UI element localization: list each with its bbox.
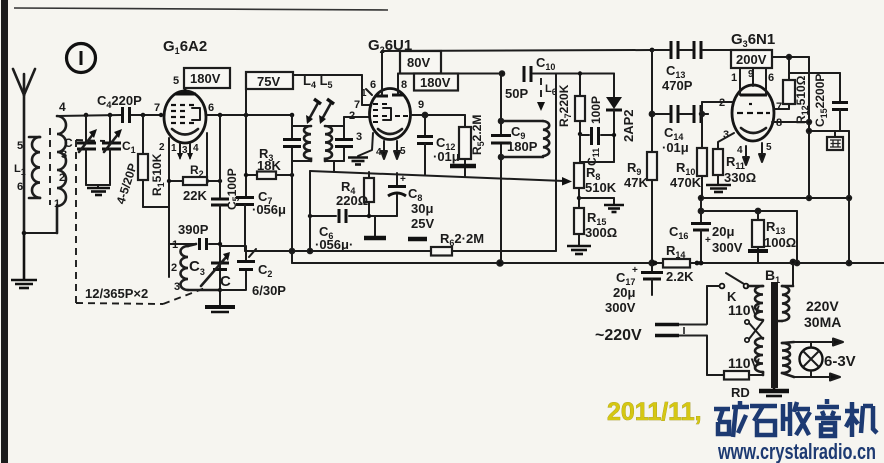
labels C8 30u 25V	[408, 186, 434, 231]
primary crossover taps	[745, 320, 763, 342]
svg-text:25V: 25V	[411, 216, 434, 231]
wire switch to input	[707, 286, 720, 324]
svg-text:5: 5	[17, 140, 23, 152]
svg-text:C: C	[64, 136, 73, 150]
resistor R15 300ohm	[574, 208, 584, 245]
variable capacitor C (osc gang)	[201, 252, 230, 286]
svg-text:www.crystalradio.cn: www.crystalradio.cn	[717, 439, 876, 463]
svg-text:110V: 110V	[728, 355, 761, 371]
svg-text:30MA: 30MA	[804, 314, 841, 330]
svg-text:2: 2	[349, 110, 355, 122]
wire secondary to rail	[791, 260, 796, 286]
tube G2 anode bars, pin6 and pin8 stems	[376, 95, 404, 96]
capacitor IF1 primary	[283, 140, 301, 147]
voltage box 80V	[400, 51, 441, 74]
svg-text:R52.2M: R52.2M	[470, 115, 486, 155]
resistor R13 100ohm	[748, 211, 768, 263]
fuse RD	[724, 371, 763, 380]
labels R8 510K	[585, 165, 617, 195]
wire diode to R8 top	[580, 161, 614, 163]
labels C17 20u 300V	[605, 270, 636, 315]
labels C6 .056u	[315, 224, 353, 252]
svg-text:3: 3	[61, 149, 67, 161]
ground transformer core	[759, 388, 789, 396]
coil L5 (IF1 secondary)	[325, 126, 332, 161]
svg-text:180V: 180V	[190, 71, 221, 86]
resistor R7 220K	[575, 71, 585, 163]
voltage box 180V at G2	[414, 74, 458, 91]
wire main bottom rail	[292, 251, 884, 263]
resistor R10 470K	[697, 148, 707, 198]
watermark CJK 机	[845, 402, 877, 437]
resistor R5 2.2M	[450, 115, 476, 176]
capacitor C10 50P	[524, 66, 614, 82]
svg-text:2011/11,: 2011/11,	[607, 398, 702, 426]
tube G1 cathode	[172, 129, 198, 135]
wire C16/R13 sub-frame	[699, 209, 800, 266]
labels R3 18K	[257, 146, 281, 173]
capacitor C7 0.056u	[236, 198, 254, 252]
svg-text:+: +	[632, 265, 638, 276]
tube G1 pin labels	[154, 102, 214, 156]
labels 110V 110V	[728, 302, 761, 371]
svg-text:G36N1: G36N1	[731, 31, 775, 49]
svg-text:4: 4	[59, 100, 66, 114]
svg-text:300V: 300V	[712, 240, 743, 255]
capacitor C12 .01u	[417, 115, 433, 175]
wire G1 grid pin2 down	[168, 138, 170, 277]
ground R11	[706, 185, 731, 192]
capacitor C8 30u electrolytic	[388, 173, 406, 216]
svg-text:G16A2: G16A2	[163, 38, 207, 56]
wire vertical x310	[309, 171, 311, 251]
svg-text:510K: 510K	[585, 180, 617, 195]
tube G2 pin1 stub	[366, 89, 372, 95]
svg-text:470K: 470K	[670, 175, 702, 190]
ground R15	[567, 246, 591, 254]
transformer B1 secondary 220V winding	[778, 286, 793, 321]
transformer B1 primary winding upper 110V	[748, 286, 763, 320]
coil L1 secondary winding (taps 1-2-3-4)	[57, 116, 66, 233]
svg-text:R13: R13	[766, 219, 785, 236]
resistor R3 18K	[244, 172, 294, 180]
svg-text:C1: C1	[122, 139, 136, 155]
svg-text:2AP2: 2AP2	[621, 109, 636, 142]
svg-text:L6: L6	[545, 83, 557, 97]
resistor R14 2.2K (in rail)	[653, 259, 700, 268]
svg-text:RD: RD	[731, 385, 750, 400]
tube G1 grids (dashed)	[171, 105, 194, 123]
svg-text:C3: C3	[189, 258, 205, 277]
tube G2 heater arrows pins 4,5	[381, 141, 400, 159]
capacitor C9 180P	[491, 136, 511, 144]
svg-text:18K: 18K	[257, 158, 281, 173]
trimmer capacitor C2 6/30P	[220, 246, 256, 290]
ground cathode network	[364, 216, 386, 238]
svg-text:300Ω: 300Ω	[585, 225, 617, 240]
transformer B1 primary winding lower 110V	[755, 338, 763, 375]
tube G1 6A2 envelope	[164, 91, 206, 143]
pilot lamp 6.3V	[800, 342, 823, 377]
svg-text:+: +	[400, 174, 406, 185]
svg-text:2: 2	[159, 142, 165, 153]
svg-text:300V: 300V	[605, 300, 636, 315]
svg-text:·01μ: ·01μ	[662, 140, 689, 155]
resistor R9 47K	[647, 152, 657, 180]
svg-text:C16: C16	[669, 224, 688, 241]
labels R11 330ohm	[724, 154, 756, 185]
svg-text:180V: 180V	[420, 75, 451, 90]
oscillator coil C3	[181, 244, 221, 290]
svg-text:6: 6	[370, 79, 376, 91]
voltage box 200V	[731, 50, 772, 68]
wire right frame rungs	[699, 129, 852, 266]
svg-text:3: 3	[182, 145, 188, 156]
svg-text:1: 1	[731, 72, 737, 84]
tube G3 grid dashes	[737, 104, 770, 113]
svg-text:C4220P: C4220P	[97, 93, 142, 110]
labels R9 47K	[624, 160, 648, 190]
resistor R11 330ohm	[713, 149, 723, 184]
wire screen line x246	[245, 89, 247, 197]
wire antenna bottom to ground	[24, 232, 57, 234]
svg-text:5: 5	[400, 146, 406, 157]
svg-text:4: 4	[376, 147, 382, 158]
svg-text:100P: 100P	[589, 96, 603, 124]
svg-text:50P: 50P	[505, 86, 528, 101]
svg-text:R7220K: R7220K	[557, 84, 573, 127]
node junctions on top wire	[84, 113, 295, 118]
svg-text:7: 7	[154, 102, 160, 114]
svg-text:6: 6	[208, 102, 214, 114]
tube G1 anode bar and pin 5 stem	[175, 88, 196, 94]
capacitor C17 20u 300V	[632, 263, 663, 295]
svg-text:470P: 470P	[662, 78, 693, 93]
labels osc coil taps 1,2,3 and C3	[171, 239, 205, 293]
headphone output box	[827, 131, 843, 150]
voltage box 75V	[246, 72, 293, 89]
svg-text:·056μ: ·056μ	[252, 202, 286, 217]
heater supply wires with arrows	[794, 339, 843, 381]
svg-text:390P: 390P	[178, 222, 209, 237]
wire G3 pin2 to R10	[700, 102, 732, 148]
svg-text:~220V: ~220V	[595, 327, 642, 344]
capacitor C4 220P	[123, 107, 130, 123]
svg-text:180P: 180P	[507, 139, 538, 154]
resistor R4 220ohm	[364, 172, 374, 216]
capacitor C6 .056u	[308, 209, 397, 223]
svg-text:5: 5	[173, 75, 179, 87]
labels C12 .01u	[433, 135, 460, 164]
svg-text:5: 5	[766, 142, 772, 153]
ground oscillator	[205, 307, 235, 312]
wire cathode/AGC line with wiper arrow to R8	[310, 171, 572, 186]
ground antenna	[11, 233, 37, 288]
labels C9 180P	[507, 124, 538, 154]
tube G2 grids	[373, 104, 408, 122]
watermark CJK 石	[750, 406, 777, 435]
coil L4 (IF1 primary)	[304, 126, 311, 161]
capacitor C15 2200P	[789, 73, 848, 131]
wire G3 pin3 to R11	[718, 133, 734, 149]
svg-text:47K: 47K	[624, 175, 648, 190]
svg-text:3: 3	[356, 131, 362, 143]
labels R2 22K	[183, 163, 207, 203]
svg-text:R1510K: R1510K	[150, 153, 166, 196]
svg-text:4-5/20P: 4-5/20P	[114, 162, 140, 206]
diode 2AP2	[606, 74, 622, 163]
capacitor 390P (osc grid)	[169, 238, 220, 250]
svg-text:1: 1	[171, 143, 177, 154]
svg-text:1: 1	[172, 239, 178, 251]
svg-text:12/365P×2: 12/365P×2	[85, 286, 148, 301]
labels C2 6/30P	[252, 262, 286, 298]
svg-text:8: 8	[401, 79, 407, 91]
resistor R1 510K	[138, 115, 169, 207]
wire input low side to fuse	[707, 336, 724, 376]
svg-text:R2: R2	[190, 163, 204, 179]
dashed gang-capacitor box	[76, 140, 205, 304]
resistor R2 22K	[167, 177, 222, 185]
labels C10 50P	[505, 55, 555, 101]
coil L1 primary winding (pins 5-6)	[29, 137, 40, 198]
labels L1 winding numbers	[14, 140, 67, 210]
resistor R8 510K (volume pot)	[574, 163, 584, 208]
labels R14 2.2K	[666, 243, 694, 284]
tube G3 6N1 envelope	[732, 85, 774, 141]
labels C14 .01u	[662, 125, 689, 155]
svg-text:6-3V: 6-3V	[824, 353, 856, 370]
transformer B1 heater winding 6.3V	[782, 342, 794, 377]
svg-text:C2: C2	[258, 262, 272, 279]
wire B+ dropper x652	[649, 50, 654, 266]
labels trimmers C and C1	[64, 136, 136, 155]
svg-text:2: 2	[59, 172, 65, 184]
svg-text:4: 4	[737, 145, 743, 156]
tube G2 triode anode bracket	[383, 108, 391, 120]
svg-text:30μ: 30μ	[411, 201, 433, 216]
svg-text:R62·2M: R62·2M	[440, 231, 484, 248]
svg-text:22K: 22K	[183, 188, 207, 203]
svg-text:1: 1	[361, 88, 367, 99]
svg-text:C11: C11	[585, 148, 601, 166]
trimmer capacitor C1	[102, 115, 122, 185]
labels R4 220ohm	[336, 179, 368, 208]
capacitor C16 20u electrolytic	[691, 211, 711, 265]
capacitor C5 100P	[211, 115, 229, 243]
svg-text:100Ω: 100Ω	[764, 235, 796, 250]
svg-text:C: C	[220, 273, 231, 290]
tube G3 pin labels	[719, 69, 782, 156]
svg-text:2: 2	[171, 262, 177, 274]
watermark CJK 矿	[714, 401, 749, 437]
wire osc centre	[218, 242, 222, 306]
svg-text:2.2K: 2.2K	[666, 269, 694, 284]
svg-text:C152200P: C152200P	[813, 74, 829, 127]
wire B+ top rail	[382, 50, 652, 51]
wire IF2 tank vertical	[497, 74, 503, 266]
resistor R6 2.2M	[431, 231, 484, 256]
svg-text:1: 1	[54, 198, 60, 210]
wire top 75V to G2 pin7	[293, 75, 371, 105]
watermark CJK 收	[783, 402, 810, 436]
capacitor C13 470P (two in series)	[650, 41, 731, 59]
section mark circled 1	[67, 44, 96, 73]
svg-text:C10: C10	[536, 55, 555, 72]
wire top signal line	[57, 115, 292, 116]
svg-text:75V: 75V	[257, 74, 280, 89]
scan page edge bar	[1, 0, 8, 463]
trimmer capacitor C (antenna)	[77, 115, 97, 185]
capacitor IF1 secondary	[335, 140, 353, 147]
coil L6 (IF2)	[501, 121, 549, 157]
tube G3 cathode	[741, 128, 766, 133]
resistor R12 510ohm	[774, 80, 795, 109]
svg-text:·01μ: ·01μ	[433, 149, 460, 164]
wire x556 drop	[555, 74, 557, 252]
wire G2 pin9 line	[410, 113, 465, 118]
tube G1 oscillator anode bracket	[192, 108, 200, 120]
tube G2 6U1 envelope	[370, 89, 411, 140]
tube G1 heater arrows pins 3,4	[177, 144, 193, 160]
wire L5 to G2 grid pin2	[344, 116, 370, 118]
svg-text:R14: R14	[666, 243, 685, 260]
svg-text:7: 7	[776, 101, 782, 113]
labels C16 20u 300V	[669, 224, 743, 255]
svg-text:R12510Ω: R12510Ω	[794, 75, 810, 124]
voltage box 180V at G1 pin5	[173, 68, 230, 88]
tube G2 pin3 to ground	[348, 133, 373, 165]
labels R15 300ohm	[585, 210, 617, 240]
labels C13 470P	[662, 63, 693, 93]
antenna	[13, 69, 35, 233]
labels 220V 30MA	[804, 298, 841, 330]
labels R13 100ohm	[764, 219, 796, 250]
svg-text:4: 4	[193, 143, 199, 154]
node antenna/coil junction	[22, 231, 27, 236]
labels C7 .056u	[252, 189, 286, 217]
mains input terminals ~220V	[655, 325, 707, 336]
capacitor C14 .01u (two in series)	[652, 105, 708, 123]
tube G3 anode bar and top pin stems	[740, 68, 767, 95]
svg-text:220V: 220V	[806, 298, 839, 314]
switch K	[720, 273, 749, 288]
IF1 adjustable core arrows	[306, 99, 334, 124]
svg-text:200V: 200V	[736, 52, 767, 67]
svg-text:6: 6	[768, 72, 774, 84]
svg-text:330Ω: 330Ω	[724, 170, 756, 185]
tube G2 cathode	[378, 129, 402, 134]
IF transformer T1 right tank wire	[325, 117, 344, 172]
svg-text:110V: 110V	[728, 302, 761, 318]
wire G1 osc anode to R2	[159, 113, 209, 183]
labels 100P / C11 rotated	[585, 96, 603, 166]
wire bottom return line y251	[245, 249, 556, 254]
tube G3 heater arrows pins 4,5	[743, 143, 765, 165]
coil L1 core (dashed)	[49, 128, 51, 205]
svg-text:220Ω: 220Ω	[336, 193, 368, 208]
ground C/C1	[86, 185, 110, 195]
transformer B1 core	[771, 282, 778, 388]
svg-text:20μ: 20μ	[712, 224, 734, 239]
svg-text:9: 9	[748, 69, 754, 80]
wire R8/R15 junction to ground	[579, 198, 624, 212]
tube G2 pin labels	[349, 79, 424, 158]
wire 200V box to right column	[772, 55, 809, 198]
scan top edge line	[14, 8, 388, 10]
svg-text:6/30P: 6/30P	[252, 283, 286, 298]
capacitor C11 100P	[580, 127, 614, 145]
svg-text:·056μ·: ·056μ·	[315, 237, 353, 252]
svg-text:6: 6	[17, 181, 23, 193]
svg-text:20μ: 20μ	[613, 285, 635, 300]
svg-text:80V: 80V	[407, 55, 430, 70]
svg-text:+: +	[705, 235, 711, 246]
svg-text:3: 3	[174, 281, 180, 293]
watermark CJK 音	[815, 399, 841, 436]
svg-text:9: 9	[418, 99, 424, 111]
L6 adjustable core dashed arrow	[537, 78, 545, 111]
ground bar under C6 label	[408, 237, 427, 242]
wire G3 pin8 to x809	[772, 120, 811, 124]
labels R10 470K	[670, 160, 702, 190]
svg-text:R11: R11	[726, 154, 745, 171]
IF transformer T1 left tank wire	[292, 115, 311, 251]
